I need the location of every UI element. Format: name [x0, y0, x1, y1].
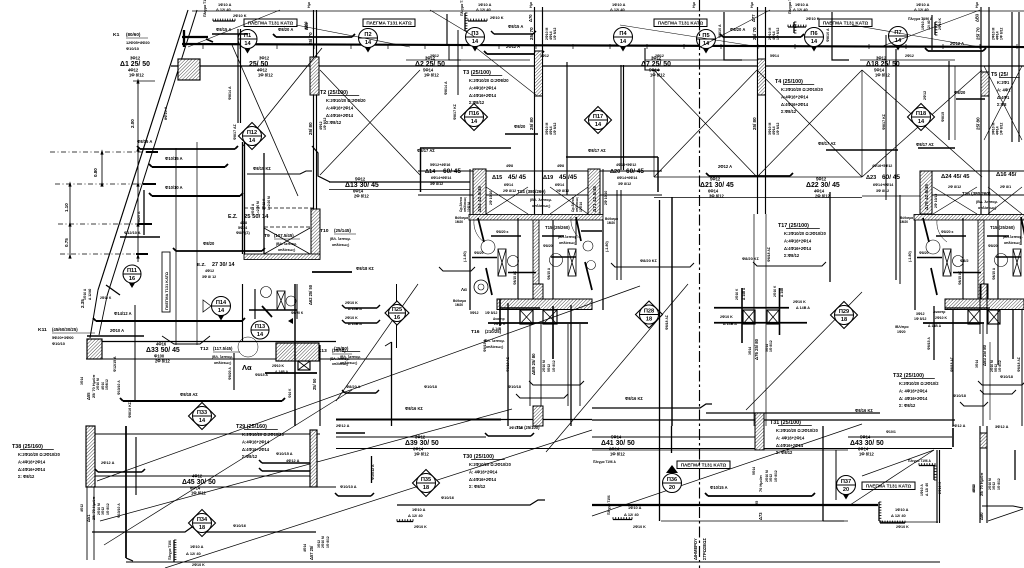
svg-text:Δ23: Δ23: [866, 175, 876, 181]
svg-text:25/ 70 Ημιϋπ: 25/ 70 Ημιϋπ: [91, 497, 96, 520]
svg-text:1Φ 8/12: 1Φ 8/12: [258, 73, 273, 78]
svg-text:2Φ 8/12: 2Φ 8/12: [155, 359, 170, 364]
svg-text:Φ8/15 Α: Φ8/15 Α: [508, 24, 523, 29]
svg-text:Α: 4Φ16+2Φ14: Α: 4Φ16+2Φ14: [899, 388, 928, 393]
svg-text:0.75: 0.75: [64, 238, 69, 247]
svg-text:Φ8/17 ΑΣ: Φ8/17 ΑΣ: [818, 141, 836, 146]
svg-text:3Φ 8/12: 3Φ 8/12: [876, 189, 889, 193]
svg-text:Δ: 4Φ16+2Φ14: Δ: 4Φ16+2Φ14: [899, 396, 928, 401]
svg-text:Σ: Φ8/12: Σ: Φ8/12: [899, 403, 916, 408]
svg-text:(117.5/45): (117.5/45): [213, 346, 233, 351]
svg-text:2Φ12: 2Φ12: [655, 54, 664, 58]
svg-text:1Φ 8/12: 1Φ 8/12: [776, 122, 780, 135]
svg-text:Α:4Φ16+2Φ14: Α:4Φ16+2Φ14: [326, 105, 354, 110]
svg-text:3Φ12: 3Φ12: [992, 482, 996, 490]
svg-text:Δ 12/ 40: Δ 12/ 40: [925, 483, 929, 496]
svg-text:οπλίσεως): οπλίσεως): [559, 241, 576, 245]
svg-text:2Φ10 Α: 2Φ10 Α: [110, 328, 124, 333]
svg-text:5Φ14: 5Φ14: [238, 226, 248, 230]
svg-text:1Φ 8/12: 1Φ 8/12: [650, 73, 665, 78]
svg-text:2Φ10 Κ: 2Φ10 Κ: [100, 296, 112, 300]
svg-text:Φ8/16 ΚΣ: Φ8/16 ΚΣ: [405, 406, 423, 411]
svg-text:1Φ 8/12: 1Φ 8/12: [485, 311, 498, 315]
svg-text:Φ8/20 ΚΣ: Φ8/20 ΚΣ: [640, 258, 658, 263]
svg-text:Ε.Ζ.: Ε.Ζ.: [228, 214, 238, 220]
svg-text:2Φ12 Α: 2Φ12 Α: [718, 164, 732, 169]
svg-text:Κ:2Φ10/20 Ω:2Φ10/20: Κ:2Φ10/20 Ω:2Φ10/20: [776, 428, 819, 433]
svg-text:Φ12/10 Α: Φ12/10 Α: [124, 230, 141, 235]
svg-text:Σ: Φ8/12: Σ: Φ8/12: [18, 474, 35, 479]
svg-text:3Φ12 Α: 3Φ12 Α: [995, 424, 1009, 429]
svg-text:(ΒΛ. λεπτομ.: (ΒΛ. λεπτομ.: [340, 355, 361, 359]
svg-text:25/ 70: 25/ 70: [308, 32, 313, 45]
svg-text:Φ8/15 Α: Φ8/15 Α: [137, 139, 152, 144]
svg-text:Φ8/18 ΑΣ: Φ8/18 ΑΣ: [1017, 357, 1021, 372]
svg-text:Α: 4Φ16+2Φ14: Α: 4Φ16+2Φ14: [776, 435, 805, 440]
svg-text:18: 18: [646, 317, 652, 323]
svg-text:Δ 14Β Α: Δ 14Β Α: [742, 287, 746, 300]
svg-text:25/ 70: 25/ 70: [752, 27, 757, 40]
svg-text:ΠΛΕΓΜΑ Τ131 ΚΑΤΩ: ΠΛΕΓΜΑ Τ131 ΚΑΤΩ: [866, 484, 912, 489]
svg-text:2Φ12 Α: 2Φ12 Α: [251, 203, 255, 215]
svg-text:Φ8/20 Α: Φ8/20 Α: [278, 27, 293, 32]
svg-text:ΙΒΛ/προ: ΙΒΛ/προ: [895, 325, 909, 329]
svg-text:2Φ10 Κ: 2Φ10 Κ: [806, 16, 820, 21]
svg-text:1Φ 8/12: 1Φ 8/12: [553, 122, 557, 135]
svg-text:14: 14: [595, 122, 602, 128]
svg-text:20: 20: [843, 487, 849, 493]
svg-text:Π14: Π14: [216, 300, 227, 306]
svg-text:70 Ημιϋπ: 70 Ημιϋπ: [758, 475, 763, 492]
svg-text:Φ10/10 Α: Φ10/10 Α: [340, 484, 357, 489]
svg-text:2Φ10 Κ: 2Φ10 Κ: [793, 300, 806, 304]
svg-text:2Φ 10/10: 2Φ 10/10: [604, 191, 608, 205]
svg-text:Δ:4Φ16+2Φ14: Δ:4Φ16+2Φ14: [469, 93, 497, 98]
svg-text:Φ8/18 ΑΣ: Φ8/18 ΑΣ: [665, 315, 669, 330]
svg-text:οπλίσεως): οπλίσεως): [278, 248, 295, 252]
svg-text:1Φ10 Α: 1Φ10 Α: [895, 507, 909, 512]
svg-text:5Φ14: 5Φ14: [770, 54, 779, 58]
svg-text:Κ:2Φ10/20 Ω:2Φ10/20: Κ:2Φ10/20 Ω:2Φ10/20: [18, 452, 61, 457]
svg-text:Ημι: Ημι: [750, 2, 754, 8]
svg-text:25/ 80: 25/ 80: [529, 117, 534, 130]
svg-text:Κ:2Φ1: Κ:2Φ1: [997, 80, 1010, 85]
svg-text:Δ 12/40: Δ 12/40: [88, 288, 92, 300]
svg-text:Δ 12/ 40: Δ 12/ 40: [476, 7, 491, 12]
svg-text:2Φ 8/12: 2Φ 8/12: [354, 194, 369, 199]
svg-text:Κ:2Φ10/20 Ω:2Φ10/2: Κ:2Φ10/20 Ω:2Φ10/2: [899, 381, 939, 386]
svg-text:Φ8/20: Φ8/20: [543, 244, 553, 248]
svg-text:Δ 14Β Α: Δ 14Β Α: [796, 306, 810, 310]
svg-text:Φ10/18: Φ10/18: [424, 384, 438, 389]
svg-text:Σ:Φ8/12: Σ:Φ8/12: [784, 253, 800, 258]
svg-text:14: 14: [811, 39, 818, 45]
svg-text:4Φ12 Α: 4Φ12 Α: [286, 458, 300, 463]
svg-text:(ΒΛ.λεπτομ.: (ΒΛ.λεπτομ.: [1003, 235, 1023, 239]
svg-text:Τ15 (25/260): Τ15 (25/260): [990, 225, 1015, 230]
svg-text:Φ8/20 Α: Φ8/20 Α: [346, 384, 361, 389]
svg-text:18: 18: [199, 525, 205, 531]
svg-text:Φ14/12 Α: Φ14/12 Α: [114, 311, 132, 316]
svg-text:2Φ 10/10: 2Φ 10/10: [489, 191, 493, 205]
svg-text:Φ8/20 Α: Φ8/20 Α: [730, 27, 745, 32]
svg-text:Αναστρ: Αναστρ: [933, 310, 945, 314]
svg-text:1Φ 8/12: 1Φ 8/12: [610, 452, 625, 457]
svg-text:Φ8/17 ΚΣ: Φ8/17 ΚΣ: [453, 103, 457, 120]
svg-text:Τ9: Τ9: [264, 233, 270, 239]
svg-text:Φ8/15 ΑΣ: Φ8/15 ΑΣ: [958, 271, 962, 285]
svg-text:1Φ8/12: 1Φ8/12: [105, 379, 109, 390]
svg-text:(25/145): (25/145): [334, 228, 351, 233]
svg-text:1.10: 1.10: [64, 203, 69, 212]
svg-text:4Φ16+5Φ12: 4Φ16+5Φ12: [872, 164, 892, 168]
svg-text:1Φ 8/12: 1Φ 8/12: [424, 73, 439, 78]
svg-text:Φ10/10: Φ10/10: [126, 46, 139, 51]
svg-text:4Φ8: 4Φ8: [240, 221, 247, 225]
svg-text:Πλεγμα Τ196 Α: Πλεγμα Τ196 Α: [908, 459, 931, 463]
svg-text:ΠΛΕΓΜΑ Τ131 ΚΑΤΩ: ΠΛΕΓΜΑ Τ131 ΚΑΤΩ: [248, 21, 294, 26]
svg-text:Ημι: Ημι: [529, 2, 533, 8]
svg-text:2Φ 8/1: 2Φ 8/1: [1000, 185, 1011, 189]
svg-text:60/ 45: 60/ 45: [882, 174, 900, 181]
svg-text:Α: 4Φ16+2Φ14: Α: 4Φ16+2Φ14: [469, 469, 498, 474]
svg-text:Φ10/15 Α: Φ10/15 Α: [710, 485, 728, 490]
svg-text:14: 14: [365, 40, 372, 46]
svg-text:Πλεγμα Τ196: Πλεγμα Τ196: [168, 540, 172, 560]
svg-text:Φ8/17 ΑΣ: Φ8/17 ΑΣ: [916, 142, 934, 147]
svg-text:Φ10/15 Α: Φ10/15 Α: [165, 156, 183, 161]
svg-text:Δ 12/ 40: Δ 12/ 40: [793, 7, 808, 12]
svg-text:Φ8/15 ΚΣ: Φ8/15 ΚΣ: [253, 166, 271, 171]
svg-text:Δ:4Φ16+2Φ14: Δ:4Φ16+2Φ14: [781, 102, 809, 107]
svg-text:Φ8/18 ΚΣ: Φ8/18 ΚΣ: [356, 266, 374, 271]
svg-text:Σ: Φ8/12: Σ: Φ8/12: [469, 484, 486, 489]
svg-text:Φ8/20: Φ8/20: [203, 241, 215, 246]
svg-text:6Φ14+6Φ14: 6Φ14+6Φ14: [617, 176, 638, 180]
svg-text:5Φ14: 5Φ14: [860, 435, 871, 440]
svg-text:2Φ 10/10: 2Φ 10/10: [934, 194, 938, 208]
svg-text:Φ8/17 ΑΣ: Φ8/17 ΑΣ: [233, 123, 237, 140]
svg-text:25/ 70: 25/ 70: [529, 27, 534, 40]
svg-text:Τ17 (25/100): Τ17 (25/100): [778, 223, 809, 229]
svg-text:6Φ14: 6Φ14: [504, 183, 514, 187]
svg-text:Α:4Φ16+2Φ14: Α:4Φ16+2Φ14: [469, 85, 497, 90]
svg-text:2Φ10 Κ: 2Φ10 Κ: [938, 17, 942, 30]
svg-text:Δ:4Φ16+2Φ14: Δ:4Φ16+2Φ14: [784, 246, 812, 251]
svg-text:5Φ14: 5Φ14: [611, 435, 622, 440]
svg-text:Ημι: Ημι: [692, 2, 696, 8]
svg-text:Πλεγμα Τ196 Α: Πλεγμα Τ196 Α: [593, 460, 616, 464]
svg-text:Φ8/20: Φ8/20: [474, 251, 484, 255]
svg-text:Δ 12/ 40: Δ 12/ 40: [914, 7, 929, 12]
svg-text:Δ70: Δ70: [528, 14, 533, 22]
svg-text:2Φ10 Κ: 2Φ10 Κ: [494, 322, 506, 326]
svg-text:Φ8/2: Φ8/2: [960, 258, 969, 263]
svg-text:1Μ20: 1Μ20: [900, 220, 908, 224]
svg-text:Φ10/18: Φ10/18: [1000, 374, 1014, 379]
svg-text:4Φ12: 4Φ12: [192, 474, 203, 479]
svg-text:1Φ10 Α: 1Φ10 Α: [412, 507, 426, 512]
svg-text:Ημι: Ημι: [307, 2, 311, 8]
svg-text:3Φ12: 3Φ12: [769, 474, 773, 482]
svg-text:1Φ 8/12: 1Φ 8/12: [106, 503, 110, 515]
svg-text:14: 14: [257, 332, 264, 338]
svg-text:16: 16: [129, 276, 135, 282]
svg-text:5Φ20+3Φ00: 5Φ20+3Φ00: [52, 335, 74, 340]
svg-text:3Φ12: 3Φ12: [130, 56, 141, 61]
svg-text:4Φ12: 4Φ12: [304, 21, 308, 30]
svg-text:1Φ 8/12: 1Φ 8/12: [552, 360, 556, 372]
svg-text:3Φ 8/12: 3Φ 8/12: [618, 182, 631, 186]
svg-text:Φ8/18 ΑΣ: Φ8/18 ΑΣ: [180, 392, 198, 397]
svg-text:4Φ12: 4Φ12: [80, 504, 84, 512]
svg-text:4Φ12: 4Φ12: [972, 484, 976, 492]
svg-text:Τ32 (25/100): Τ32 (25/100): [893, 373, 924, 379]
svg-text:3Φ12: 3Φ12: [259, 56, 270, 61]
svg-text:Φ10/18: Φ10/18: [953, 393, 967, 398]
svg-text:5Φ12: 5Φ12: [355, 177, 366, 182]
svg-text:Π37: Π37: [841, 479, 851, 485]
svg-text:Π13: Π13: [255, 324, 265, 330]
svg-text:2Φ 8/12: 2Φ 8/12: [948, 185, 961, 189]
svg-text:Κ:2Φ10/20 Ω:2Φ8/20: Κ:2Φ10/20 Ω:2Φ8/20: [326, 98, 366, 103]
svg-text:Π36: Π36: [667, 477, 677, 483]
svg-text:Π6: Π6: [810, 31, 817, 37]
svg-text:Φ8/17 ΚΣ: Φ8/17 ΚΣ: [882, 113, 886, 130]
svg-text:Δ71 42.5/45: Δ71 42.5/45: [592, 186, 598, 212]
svg-text:οπλίσεως): οπλίσεως): [1004, 241, 1021, 245]
svg-text:14: 14: [218, 308, 225, 314]
svg-text:Πλεγμα Τ196: Πλεγμα Τ196: [607, 495, 611, 515]
svg-text:1Φ 8/12: 1Φ 8/12: [769, 340, 773, 352]
svg-text:1Μ20: 1Μ20: [455, 303, 463, 307]
svg-text:Αναστρ: Αναστρ: [493, 317, 505, 321]
svg-text:2Φ12 Α: 2Φ12 Α: [101, 460, 115, 465]
svg-text:(25/80): (25/80): [334, 346, 349, 351]
svg-text:1Φ 8/12: 1Φ 8/12: [129, 73, 144, 78]
svg-text:3Φ12 Κ: 3Φ12 Κ: [262, 198, 266, 210]
svg-text:Δ14: Δ14: [425, 169, 436, 175]
svg-text:Π16: Π16: [469, 111, 479, 117]
svg-text:1Φ 8/12: 1Φ 8/12: [1000, 122, 1004, 135]
svg-text:Φ8/14 Α: Φ8/14 Α: [444, 81, 448, 95]
svg-text:Φ8/20: Φ8/20: [988, 244, 998, 248]
svg-text:οπλίσεως): οπλίσεως): [486, 345, 503, 349]
svg-text:Π25: Π25: [392, 307, 402, 313]
svg-text:6Φ14: 6Φ14: [555, 183, 565, 187]
svg-text:Δ57 25/: Δ57 25/: [309, 545, 314, 560]
svg-text:14: 14: [471, 119, 478, 125]
svg-text:16: 16: [394, 315, 400, 321]
svg-text:Φ8/16 ΚΣ: Φ8/16 ΚΣ: [625, 396, 643, 401]
svg-text:1Φ10 Α: 1Φ10 Α: [921, 18, 925, 30]
svg-text:Σ:Φ8/12: Σ:Φ8/12: [326, 120, 342, 125]
svg-text:Π35: Π35: [421, 477, 431, 483]
svg-text:Ε.Ζ.: Ε.Ζ.: [197, 262, 206, 268]
svg-text:2Φ10 Κ: 2Φ10 Κ: [414, 525, 427, 529]
svg-text:Τ3 (25/100): Τ3 (25/100): [463, 70, 491, 76]
svg-text:Δ:4Φ16+2Φ14: Δ:4Φ16+2Φ14: [469, 477, 497, 482]
svg-text:4Φ16: 4Φ16: [156, 342, 167, 347]
svg-text:Κ:2Φ10/20 Ω:2Φ10/20: Κ:2Φ10/20 Ω:2Φ10/20: [781, 87, 824, 92]
svg-text:6Φ14+6Φ14: 6Φ14+6Φ14: [431, 176, 452, 180]
svg-text:Π34: Π34: [197, 517, 208, 523]
svg-text:3Φ 8/12: 3Φ 8/12: [430, 182, 443, 186]
svg-text:2Φ12 Α: 2Φ12 Α: [506, 44, 520, 49]
svg-text:(ΒΛ. λεπτομ.: (ΒΛ. λεπτομ.: [530, 198, 552, 202]
svg-text:1Φ 8/12: 1Φ 8/12: [774, 470, 778, 482]
svg-text:3Φ12: 3Φ12: [540, 54, 549, 58]
svg-text:Φ8/15: Φ8/15: [941, 112, 945, 122]
svg-text:1Φ 8/12: 1Φ 8/12: [326, 536, 330, 548]
svg-text:3Φ12: 3Φ12: [101, 507, 105, 515]
svg-text:Φ8/20 κ: Φ8/20 κ: [496, 230, 509, 234]
svg-text:ΔΙΗΜΕΡΟΥ: ΔΙΗΜΕΡΟΥ: [693, 538, 698, 560]
svg-text:(80/60): (80/60): [126, 32, 141, 37]
svg-text:L=2.60 Μ: L=2.60 Μ: [267, 196, 271, 210]
svg-text:Φ8/20 Κ: Φ8/20 Κ: [291, 311, 304, 315]
svg-text:Κ1: Κ1: [113, 32, 120, 38]
svg-text:Φ10/18: Φ10/18: [508, 384, 522, 389]
svg-text:L=2.00 Μ: L=2.00 Μ: [256, 201, 260, 215]
svg-text:Κ:2Φ10/20 Ω:2Φ10/20: Κ:2Φ10/20 Ω:2Φ10/20: [784, 231, 827, 236]
svg-text:Φ10 Κ: Φ10 Κ: [288, 388, 292, 398]
svg-text:οπλίσεως): οπλίσεως): [332, 243, 349, 247]
svg-text:Π17: Π17: [593, 114, 603, 120]
svg-text:ΔΒ3: ΔΒ3: [975, 13, 980, 22]
svg-text:1Φ 8/12: 1Φ 8/12: [191, 491, 206, 496]
svg-text:1Φ10 Α: 1Φ10 Α: [83, 288, 87, 300]
svg-text:3Φ12: 3Φ12: [876, 56, 887, 61]
svg-text:(-1.80): (-1.80): [908, 250, 912, 262]
svg-text:60/ 45: 60/ 45: [443, 168, 461, 175]
svg-text:3Φ12: 3Φ12: [415, 435, 426, 440]
svg-text:Φ8/16 ΚΣ: Φ8/16 ΚΣ: [855, 408, 873, 413]
svg-text:5Φ14: 5Φ14: [752, 467, 756, 475]
svg-text:Π28: Π28: [644, 308, 654, 314]
svg-text:2Φ10 Κ: 2Φ10 Κ: [633, 525, 646, 529]
svg-text:Δ78 42.5/45: Δ78 42.5/45: [924, 184, 930, 210]
svg-text:Π3: Π3: [471, 31, 478, 37]
svg-text:Φ10/10 Α: Φ10/10 Α: [117, 380, 121, 395]
svg-text:2Φ10 Μ: 2Φ10 Μ: [96, 378, 100, 390]
svg-text:Π29: Π29: [839, 309, 849, 315]
svg-text:1Μ20: 1Μ20: [607, 221, 615, 225]
svg-text:Φ10/16: Φ10/16: [441, 495, 455, 500]
svg-text:2Φ12 Α: 2Φ12 Α: [950, 41, 964, 46]
svg-text:2Φ10 Κ: 2Φ10 Κ: [896, 525, 909, 529]
svg-text:18: 18: [423, 485, 429, 491]
svg-text:1Φ 8/12: 1Φ 8/12: [776, 27, 780, 40]
svg-text:14: 14: [918, 119, 925, 125]
svg-text:2.00: 2.00: [130, 119, 135, 128]
svg-text:Δ20: Δ20: [610, 169, 620, 175]
svg-text:Φ8/20 Α: Φ8/20 Α: [137, 211, 141, 225]
svg-text:Π11: Π11: [127, 268, 137, 274]
svg-text:Δ54 42.5/45: Δ54 42.5/45: [477, 186, 483, 212]
svg-text:Δ76 25/ 80: Δ76 25/ 80: [754, 338, 759, 360]
svg-text:Π33: Π33: [197, 410, 207, 416]
svg-text:Δ 12/ 40: Δ 12/ 40: [610, 7, 625, 12]
svg-text:1Φ10 Α: 1Φ10 Α: [920, 484, 924, 496]
svg-text:5Φ12: 5Φ12: [547, 364, 551, 372]
svg-text:Φ8/20: Φ8/20: [919, 251, 929, 255]
svg-text:Τ38 (25/160): Τ38 (25/160): [12, 444, 43, 450]
svg-text:Ημι: Ημι: [975, 2, 979, 8]
svg-text:Πλεγμα Τ196: Πλεγμα Τ196: [788, 0, 792, 14]
svg-text:2Φ10 Κ: 2Φ10 Κ: [773, 285, 777, 297]
svg-text:18: 18: [841, 317, 847, 323]
svg-text:2Φ 8/12: 2Φ 8/12: [503, 189, 516, 193]
svg-text:Π12: Π12: [247, 130, 257, 136]
svg-text:Φ12/15 Α: Φ12/15 Α: [113, 356, 117, 372]
svg-text:1Μ20: 1Μ20: [455, 220, 463, 224]
svg-text:Δ:4Φ16+2Φ14: Δ:4Φ16+2Φ14: [18, 467, 46, 472]
svg-text:27 30/ 14: 27 30/ 14: [212, 262, 234, 268]
svg-text:2Φ10 Κ: 2Φ10 Κ: [720, 315, 733, 319]
svg-text:Φ8/15 Α: Φ8/15 Α: [216, 27, 231, 32]
svg-text:Φ10/1: Φ10/1: [886, 430, 896, 434]
svg-text:Τ14 (380/260): Τ14 (380/260): [517, 189, 546, 194]
svg-text:20: 20: [669, 485, 675, 491]
svg-text:3Φ14: 3Φ14: [80, 377, 84, 385]
svg-text:Φ8/16 ΚΣ: Φ8/16 ΚΣ: [128, 401, 132, 418]
svg-text:Σ:Φ8/12: Σ:Φ8/12: [242, 454, 258, 459]
svg-text:οπλίσεως): οπλίσεως): [978, 206, 997, 210]
svg-text:2Φ12 Α: 2Φ12 Α: [952, 423, 966, 428]
svg-text:14: 14: [244, 41, 251, 47]
svg-text:Δ 14Β Α: Δ 14Β Α: [928, 324, 942, 328]
svg-text:Δ 14Β Α: Δ 14Β Α: [723, 322, 737, 326]
svg-text:ΠΛΕΓΜΑ Τ131 ΚΑΤΩ: ΠΛΕΓΜΑ Τ131 ΚΑΤΩ: [823, 21, 869, 26]
svg-text:14: 14: [199, 418, 206, 424]
svg-text:Δ24 45/ 45: Δ24 45/ 45: [941, 174, 970, 180]
svg-text:Τ2 (25/100): Τ2 (25/100): [320, 90, 348, 96]
svg-text:Φ8/20 Α: Φ8/20 Α: [228, 367, 232, 380]
svg-text:Δ:4Φ16+2Φ14: Δ:4Φ16+2Φ14: [242, 447, 270, 452]
svg-text:Δ73: Δ73: [758, 512, 763, 520]
svg-text:(ΒΛ. λεπτομ.: (ΒΛ. λεπτομ.: [976, 200, 998, 204]
svg-text:Δ:4Φ16+2Φ14: Δ:4Φ16+2Φ14: [776, 443, 804, 448]
svg-text:Φ10/15 Α: Φ10/15 Α: [276, 451, 293, 456]
svg-text:2Φ12: 2Φ12: [430, 54, 439, 58]
svg-text:8Φ10 Α: 8Φ10 Α: [163, 106, 168, 120]
svg-text:4Φ16+5Φ12: 4Φ16+5Φ12: [616, 163, 636, 167]
svg-text:Τ5 (25/: Τ5 (25/: [991, 72, 1009, 78]
svg-text:Φ8/15 Α: Φ8/15 Α: [927, 337, 931, 350]
svg-text:οπλίσεως): οπλίσεως): [214, 361, 231, 365]
svg-text:1Φ 8/12: 1Φ 8/12: [998, 360, 1002, 372]
svg-text:Δ83 25/ 80: Δ83 25/ 80: [982, 344, 987, 366]
svg-text:3Φ 8/ 12: 3Φ 8/ 12: [202, 275, 216, 279]
svg-text:4Φ14: 4Φ14: [303, 544, 307, 552]
svg-text:Φ8/20: Φ8/20: [954, 90, 966, 95]
svg-text:Δ 12/ 40: Δ 12/ 40: [891, 513, 906, 518]
svg-text:Α:4Φ16+2Φ14: Α:4Φ16+2Φ14: [784, 238, 812, 243]
svg-text:2Φ12 Α: 2Φ12 Α: [336, 423, 350, 428]
svg-text:Τ31 (25/100): Τ31 (25/100): [770, 420, 801, 426]
svg-text:Τ12: Τ12: [200, 346, 209, 352]
svg-text:25/ 80: 25/ 80: [976, 117, 981, 130]
svg-text:Δ 14Β: Δ 14Β: [780, 287, 784, 297]
svg-text:25/ 50: 25/ 50: [312, 378, 317, 390]
svg-text:Δ 12/ 40: Δ 12/ 40: [624, 512, 639, 517]
svg-text:Δ:4Φ16+2Φ14: Δ:4Φ16+2Φ14: [326, 113, 354, 118]
svg-text:ΠΛΕΓΜΑ Τ131 ΚΑΤΩ: ΠΛΕΓΜΑ Τ131 ΚΑΤΩ: [681, 463, 727, 468]
svg-text:Φ8/18 ΑΣ: Φ8/18 ΑΣ: [950, 357, 954, 372]
svg-text:(-1.80): (-1.80): [463, 250, 467, 262]
svg-text:ΔΕ9 25/ 80: ΔΕ9 25/ 80: [531, 353, 536, 375]
